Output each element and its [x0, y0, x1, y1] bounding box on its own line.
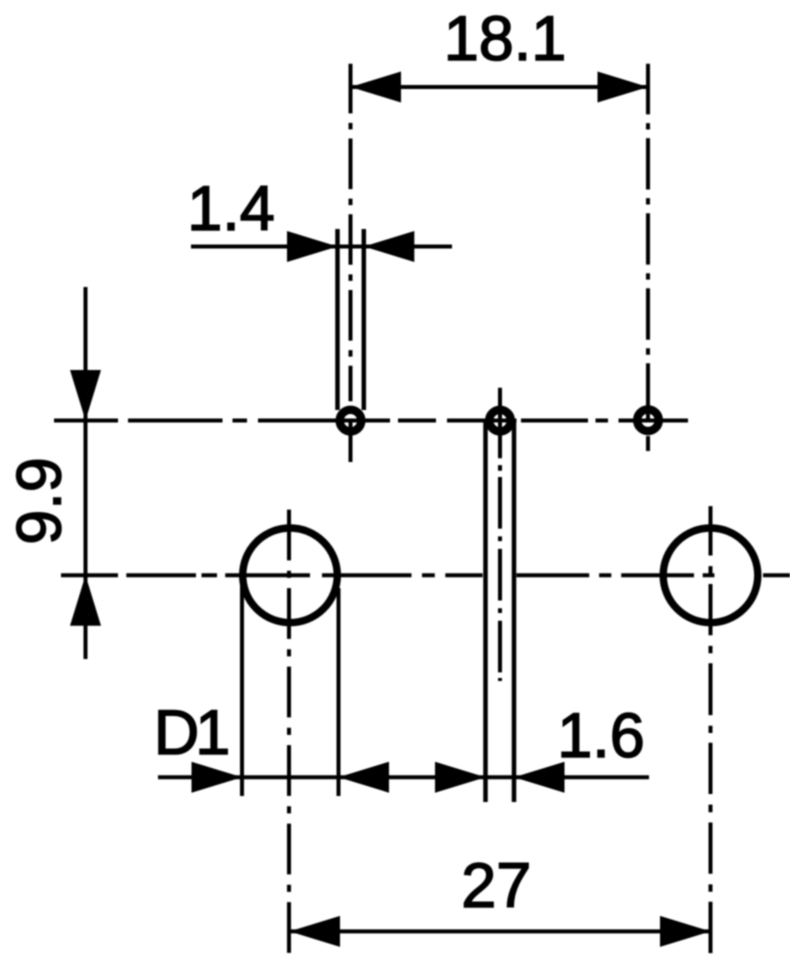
centerline vertical through middle slot: [498, 388, 502, 681]
upper slot left wall: [335, 229, 340, 410]
dimension line D1 / 1.6 shared: [158, 775, 649, 779]
arrowhead 1.4 pointing left at right slot wall: [364, 231, 415, 262]
centerline vertical through right big hole: [709, 506, 713, 953]
solder pad hole B (middle small ring): [489, 410, 511, 432]
svg-text:27: 27: [461, 851, 531, 921]
arrowhead 1.6 pointing right at slot left wall: [435, 762, 486, 793]
dimension line 18.1: [351, 85, 649, 89]
mounting hole right (big circle): [663, 528, 758, 623]
svg-text:1.6: 1.6: [557, 701, 645, 771]
horizontal centerline through pads row: [54, 419, 688, 423]
upper slot right wall: [362, 229, 367, 410]
svg-text:9.9: 9.9: [5, 457, 75, 545]
extension line D1 right tangent: [337, 588, 341, 796]
dimension line 9.9 (vertical): [84, 287, 88, 659]
arrowhead 18.1 right: [598, 72, 649, 103]
centerline vertical through left big hole: [287, 510, 291, 953]
solder pad hole C (right small ring): [637, 409, 659, 431]
middle slot left wall: [483, 421, 488, 802]
svg-text:18.1: 18.1: [444, 4, 567, 74]
svg-text:D1: D1: [154, 698, 227, 768]
arrowhead D1 pointing left at right tangent: [339, 762, 390, 793]
arrowhead 18.1 left: [351, 72, 402, 103]
arrowhead 9.9 pointing down at pad row centerline: [70, 370, 101, 421]
arrowhead D1 pointing right at left tangent: [192, 762, 243, 793]
dimension line 27: [290, 929, 711, 933]
dimension line 1.4: [191, 245, 452, 249]
horizontal centerline through big holes row: [61, 573, 790, 577]
centerline vertical through right pad (node C): [646, 64, 650, 451]
centerline vertical through upper slot (node A): [349, 64, 353, 462]
middle slot right wall: [512, 421, 517, 802]
arrowhead 27 left: [290, 916, 341, 947]
svg-text:1.4: 1.4: [187, 174, 275, 244]
solder pad hole A (left small ring): [340, 410, 362, 432]
extension line D1 left tangent: [240, 586, 244, 796]
arrowhead 9.9 pointing up at big-hole row centerline: [70, 575, 101, 626]
arrowhead 1.4 pointing right at left slot wall: [287, 231, 338, 262]
arrowhead 1.6 pointing left at slot right wall: [514, 762, 565, 793]
arrowhead 27 right: [660, 916, 711, 947]
mounting hole D1 (left big circle): [243, 528, 338, 623]
